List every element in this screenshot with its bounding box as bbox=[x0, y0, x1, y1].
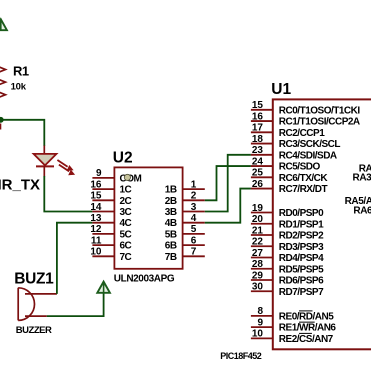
svg-text:6C: 6C bbox=[120, 241, 132, 252]
U1 right pin name fragments RA bbox=[345, 164, 371, 217]
svg-text:IR_TX: IR_TX bbox=[0, 176, 40, 193]
svg-text:30: 30 bbox=[252, 282, 264, 293]
wire U2 2B to U1 RC5 pin24 bbox=[205, 166, 251, 200]
LED cathode bar bbox=[36, 165, 54, 167]
svg-text:RD2/PSP2: RD2/PSP2 bbox=[279, 231, 324, 242]
svg-text:11: 11 bbox=[91, 235, 102, 246]
svg-text:RD5/PSP5: RD5/PSP5 bbox=[279, 264, 324, 275]
svg-text:18: 18 bbox=[252, 134, 264, 145]
svg-text:13: 13 bbox=[90, 213, 102, 224]
svg-text:RE0/RD/AN5: RE0/RD/AN5 bbox=[279, 311, 334, 322]
svg-text:4C: 4C bbox=[120, 218, 132, 229]
U1 RC pin names bbox=[279, 105, 361, 195]
svg-text:RC6/TX/CK: RC6/TX/CK bbox=[279, 173, 329, 184]
LED D1 anode pin bbox=[43, 146, 45, 154]
resistor R1 bbox=[0, 60, 6, 104]
svg-text:RD3/PSP3: RD3/PSP3 bbox=[279, 242, 324, 253]
LED cathode pin bbox=[43, 166, 45, 176]
svg-text:RC3/SCK/SCL: RC3/SCK/SCL bbox=[279, 139, 341, 150]
svg-text:21: 21 bbox=[252, 225, 264, 236]
svg-text:2B: 2B bbox=[165, 196, 177, 207]
svg-text:7B: 7B bbox=[165, 252, 177, 263]
LED arrow 1 bbox=[57, 160, 73, 171]
svg-text:RC2/CCP1: RC2/CCP1 bbox=[279, 128, 325, 139]
LED arrow 2 bbox=[59, 165, 75, 176]
svg-text:5B: 5B bbox=[165, 229, 177, 240]
svg-text:4B: 4B bbox=[165, 218, 177, 229]
U1 RD pin numbers bbox=[252, 203, 264, 293]
svg-text:16: 16 bbox=[252, 111, 264, 122]
svg-text:10: 10 bbox=[90, 247, 102, 258]
U1 RE pin numbers bbox=[252, 306, 264, 340]
wire junction to LED bbox=[1, 120, 45, 146]
svg-text:8: 8 bbox=[257, 306, 263, 317]
svg-text:12: 12 bbox=[90, 224, 102, 235]
svg-text:7: 7 bbox=[191, 247, 197, 258]
U1 RD pin names bbox=[279, 208, 324, 298]
LED triangle bbox=[34, 154, 57, 166]
power terminal (near buzzer) bbox=[97, 282, 110, 294]
U1 RC pin numbers bbox=[252, 100, 264, 190]
svg-text:RA3/AN3/VREF+: RA3/AN3/VREF+ bbox=[353, 172, 371, 183]
svg-text:22: 22 bbox=[252, 237, 264, 248]
power terminal (top-left, partially cut) bbox=[0, 19, 7, 30]
svg-text:U2: U2 bbox=[113, 150, 133, 167]
U2 left pins 9,16,15,14,13,12,11,10 bbox=[92, 178, 114, 256]
svg-text:U1: U1 bbox=[271, 81, 291, 98]
svg-text:RC4/SDI/SDA: RC4/SDI/SDA bbox=[279, 150, 337, 161]
svg-text:9: 9 bbox=[257, 317, 263, 328]
svg-text:26: 26 bbox=[252, 179, 264, 190]
svg-text:5: 5 bbox=[191, 224, 197, 235]
wire buzzer top to U2 pin 13 bbox=[57, 223, 93, 294]
U2 left pin numbers bbox=[90, 168, 102, 257]
svg-text:20: 20 bbox=[252, 214, 264, 225]
svg-text:17: 17 bbox=[252, 123, 264, 134]
svg-text:R1: R1 bbox=[13, 63, 29, 78]
svg-text:RA6/OSC2/CLKO: RA6/OSC2/CLKO bbox=[353, 205, 371, 216]
svg-text:15: 15 bbox=[252, 100, 264, 111]
svg-text:6B: 6B bbox=[165, 241, 177, 252]
svg-text:RC7/RX/DT: RC7/RX/DT bbox=[279, 184, 328, 195]
svg-text:RD4/PSP4: RD4/PSP4 bbox=[279, 253, 324, 264]
svg-text:6: 6 bbox=[191, 235, 197, 246]
IC U2 ULN2003APG body bbox=[114, 167, 182, 268]
pin below junction bbox=[0, 124, 1, 130]
svg-text:RE1/WR/AN6: RE1/WR/AN6 bbox=[279, 323, 337, 334]
COM marker dot bbox=[124, 174, 130, 180]
svg-text:27: 27 bbox=[252, 248, 264, 259]
svg-text:RD1/PSP1: RD1/PSP1 bbox=[279, 219, 324, 230]
svg-text:2: 2 bbox=[191, 191, 197, 202]
U1 left pins RD group bbox=[251, 213, 273, 292]
U1 left pins RE group bbox=[251, 316, 273, 339]
U2 right pins 1-7 bbox=[183, 189, 205, 256]
svg-text:7C: 7C bbox=[120, 252, 132, 263]
svg-text:2C: 2C bbox=[120, 196, 132, 207]
svg-text:1C: 1C bbox=[120, 185, 132, 196]
svg-text:1B: 1B bbox=[165, 185, 177, 196]
svg-text:10: 10 bbox=[252, 329, 264, 340]
U2 right pin numbers bbox=[191, 179, 197, 257]
buzzer BUZ1 bbox=[18, 288, 34, 321]
buzzer pin bottom bbox=[25, 315, 47, 317]
U2 left pin names bbox=[120, 173, 142, 262]
svg-text:RC0/T1OSO/T1CKI: RC0/T1OSO/T1CKI bbox=[279, 105, 361, 116]
svg-text:3C: 3C bbox=[120, 207, 132, 218]
wire LED to U2 pin 14 bbox=[44, 176, 92, 212]
node junction bbox=[0, 117, 4, 123]
U1 left pins RC group bbox=[251, 110, 273, 189]
svg-text:ULN2003APG: ULN2003APG bbox=[114, 274, 175, 285]
svg-text:28: 28 bbox=[252, 259, 264, 270]
svg-text:16: 16 bbox=[90, 179, 102, 190]
svg-text:PIC18F452: PIC18F452 bbox=[220, 351, 262, 361]
svg-text:RE2/CS/AN7: RE2/CS/AN7 bbox=[279, 334, 334, 345]
svg-text:15: 15 bbox=[90, 191, 102, 202]
svg-text:14: 14 bbox=[90, 202, 102, 213]
svg-text:3B: 3B bbox=[165, 207, 177, 218]
buzzer pin top bbox=[25, 293, 57, 295]
svg-text:RC5/SDO: RC5/SDO bbox=[279, 162, 321, 173]
svg-text:RC1/T1OSI/CCP2A: RC1/T1OSI/CCP2A bbox=[279, 117, 360, 128]
svg-text:23: 23 bbox=[252, 145, 264, 156]
svg-text:29: 29 bbox=[252, 270, 264, 281]
svg-text:5C: 5C bbox=[120, 229, 132, 240]
U1 RE pin names bbox=[279, 311, 337, 345]
svg-text:BUZZER: BUZZER bbox=[16, 325, 52, 336]
svg-text:25: 25 bbox=[252, 168, 264, 179]
svg-text:19: 19 bbox=[252, 203, 264, 214]
svg-text:24: 24 bbox=[252, 156, 264, 167]
wire buzzer bottom to power bbox=[47, 293, 104, 316]
wire U2 4B to U1 RC7 pin26 bbox=[205, 189, 251, 223]
wire U2 3B to U1 RC4 pin23 bbox=[205, 155, 251, 212]
svg-text:3: 3 bbox=[191, 202, 197, 213]
svg-text:9: 9 bbox=[96, 168, 102, 179]
svg-text:10k: 10k bbox=[11, 82, 27, 93]
svg-text:BUZ1: BUZ1 bbox=[14, 270, 54, 287]
IC U1 PIC18F452 body bbox=[273, 99, 371, 349]
U2 right pin names bbox=[165, 185, 177, 263]
svg-text:RD0/PSP0: RD0/PSP0 bbox=[279, 208, 324, 219]
svg-text:4: 4 bbox=[191, 213, 197, 224]
svg-text:RD6/PSP6: RD6/PSP6 bbox=[279, 276, 324, 287]
svg-text:RD7/PSP7: RD7/PSP7 bbox=[279, 287, 324, 298]
svg-text:1: 1 bbox=[191, 179, 197, 190]
